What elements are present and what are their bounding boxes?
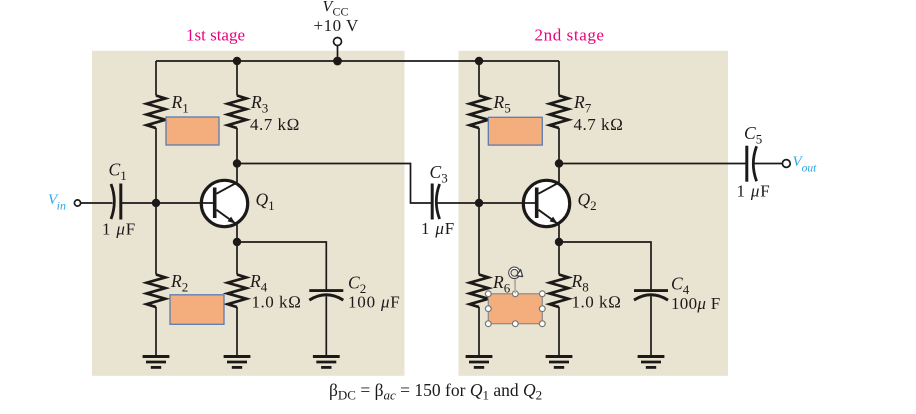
svg-text:4.7 kΩ: 4.7 kΩ [574, 115, 624, 134]
svg-text:100μ F: 100μ F [671, 294, 721, 313]
svg-text:1.0 kΩ: 1.0 kΩ [572, 293, 622, 312]
svg-text:100 μF: 100 μF [348, 293, 401, 312]
svg-text:1 μF: 1 μF [421, 219, 455, 238]
svg-text:2nd stage: 2nd stage [535, 26, 605, 45]
svg-text:1st stage: 1st stage [186, 26, 245, 45]
svg-text:+10 V: +10 V [314, 16, 360, 35]
svg-text:1 μF: 1 μF [737, 182, 771, 201]
svg-text:4.7 kΩ: 4.7 kΩ [250, 115, 300, 134]
svg-text:1 μF: 1 μF [102, 220, 136, 239]
svg-text:βDC = βac = 150 for Q1 and Q2: βDC = βac = 150 for Q1 and Q2 [329, 380, 542, 403]
svg-text:1.0 kΩ: 1.0 kΩ [252, 293, 302, 312]
